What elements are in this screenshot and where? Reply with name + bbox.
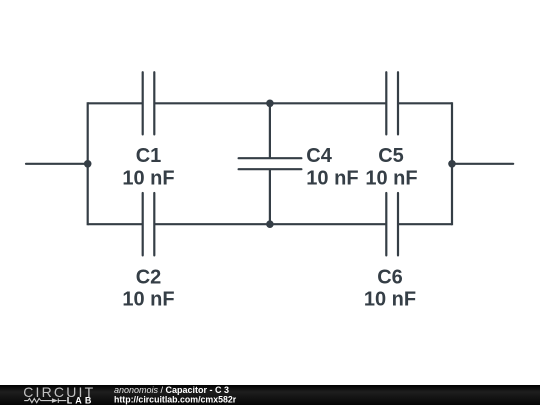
svg-text:10 nF: 10 nF (122, 289, 174, 311)
svg-text:anonomois / Capacitor - C 3: anonomois / Capacitor - C 3 (114, 385, 229, 395)
svg-text:C6: C6 (377, 267, 403, 289)
svg-text:10 nF: 10 nF (365, 167, 417, 189)
svg-text:C2: C2 (136, 267, 162, 289)
svg-text:10 nF: 10 nF (306, 167, 358, 189)
svg-text:10 nF: 10 nF (122, 167, 174, 189)
svg-text:C4: C4 (306, 145, 332, 167)
svg-text:C5: C5 (378, 145, 404, 167)
svg-text:LAB: LAB (67, 396, 95, 406)
svg-text:http://circuitlab.com/cmx582r: http://circuitlab.com/cmx582r (114, 395, 237, 405)
svg-text:10 nF: 10 nF (364, 289, 416, 311)
svg-text:C1: C1 (136, 145, 162, 167)
